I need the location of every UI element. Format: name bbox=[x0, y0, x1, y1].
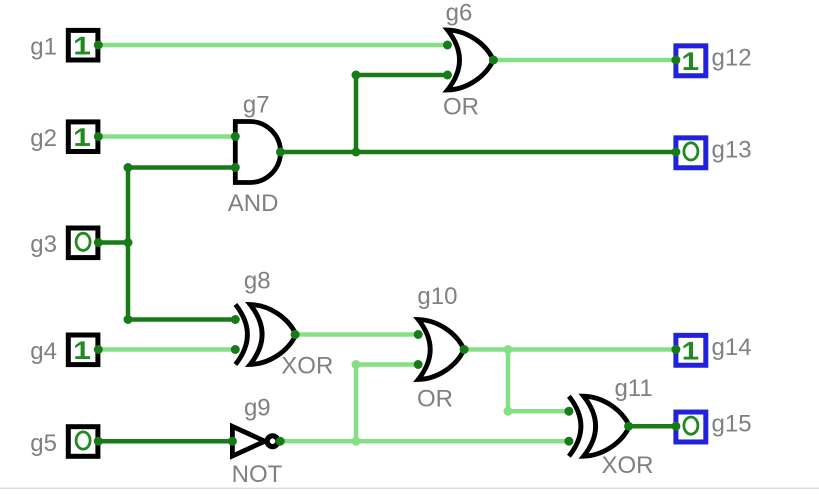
or-gate g6 bbox=[448, 30, 494, 90]
pin dots g7 bbox=[231, 132, 285, 172]
wire g1 out to g6 upper input (high) bbox=[98, 43, 447, 48]
svg-text:NOT: NOT bbox=[232, 461, 283, 488]
junction dot corner to g10 lower bbox=[352, 360, 361, 369]
wire g3 net to g7 lower input (low) bbox=[128, 165, 235, 170]
wire g7 out to g13 (low) bbox=[281, 150, 676, 155]
junction dot junction on g7 out bbox=[352, 148, 361, 157]
output box g14 bbox=[676, 335, 706, 365]
port dot g5 bbox=[94, 437, 103, 446]
port dot g13 bbox=[671, 148, 680, 157]
junction dot corner to g6 lower bbox=[352, 71, 361, 80]
port dot g3 bbox=[94, 238, 103, 247]
wire g4 out to g8 lower input (high) bbox=[98, 347, 235, 352]
svg-text:g7: g7 bbox=[243, 92, 270, 119]
and-gate g7 bbox=[235, 122, 280, 183]
wire branch to g10 lower input (high) bbox=[356, 362, 418, 367]
junction dot corner to g11 upper bbox=[504, 407, 513, 416]
svg-text:g8: g8 bbox=[244, 267, 271, 294]
value 1 in g12 bbox=[683, 52, 698, 70]
svg-text:g5: g5 bbox=[30, 430, 57, 457]
pin dots g9 bbox=[228, 437, 285, 446]
junction dot corner to g8 upper bbox=[124, 315, 133, 324]
wire g11 out to g15 (low) bbox=[629, 424, 676, 429]
port dot g2 bbox=[94, 132, 103, 141]
wire g9 out to g11 lower input (high) bbox=[280, 439, 569, 444]
wire g8 out to g10 upper input (high) bbox=[295, 332, 418, 337]
not-gate g9 bbox=[232, 426, 278, 456]
wire g3 net to g8 upper input (low) bbox=[128, 317, 235, 322]
svg-text:g11: g11 bbox=[614, 375, 652, 402]
port dot g15 bbox=[671, 422, 680, 431]
pin dots g11 bbox=[564, 407, 633, 446]
pin dots g8 bbox=[231, 315, 300, 354]
xor-gate g8 bbox=[235, 305, 296, 365]
svg-text:OR: OR bbox=[443, 93, 479, 120]
svg-text:g14: g14 bbox=[712, 334, 752, 361]
input box g4 bbox=[68, 335, 98, 365]
wire g6 out to g12 (high) bbox=[493, 58, 676, 63]
wire g2 out to g7 upper input (high) bbox=[98, 134, 235, 139]
svg-text:g6: g6 bbox=[446, 0, 473, 26]
svg-text:g9: g9 bbox=[244, 395, 271, 422]
wire g9 out branch vertical (high) bbox=[354, 365, 359, 442]
wire g10 out to g14 (high) bbox=[464, 347, 676, 352]
pin dots g10 bbox=[414, 330, 469, 369]
wire g5 out to g9 input (low) bbox=[98, 439, 232, 444]
svg-text:g10: g10 bbox=[417, 283, 457, 310]
port dot g1 bbox=[94, 41, 103, 50]
value 1 in g4 bbox=[75, 341, 90, 359]
value 1 in g1 bbox=[75, 37, 90, 55]
value 1 in g14 bbox=[683, 342, 698, 360]
svg-text:g3: g3 bbox=[30, 231, 57, 258]
svg-text:AND: AND bbox=[228, 190, 279, 217]
wire g10 out branch vertical (high) bbox=[506, 350, 511, 412]
input box g5 bbox=[68, 427, 98, 457]
svg-text:OR: OR bbox=[417, 385, 453, 412]
input box g1 bbox=[68, 30, 98, 60]
pin dots g6 bbox=[443, 41, 498, 80]
output box g13 bbox=[676, 138, 706, 168]
port dot g4 bbox=[94, 345, 103, 354]
svg-text:XOR: XOR bbox=[601, 452, 653, 479]
wire branch to g11 upper input (high) bbox=[508, 409, 569, 414]
wire branch to g6 lower input (low) bbox=[356, 73, 448, 78]
xor-gate g11 bbox=[569, 396, 630, 456]
svg-text:g4: g4 bbox=[30, 338, 57, 365]
svg-text:g12: g12 bbox=[712, 44, 752, 71]
svg-text:g15: g15 bbox=[712, 411, 752, 438]
svg-text:g1: g1 bbox=[30, 34, 57, 61]
svg-text:g2: g2 bbox=[30, 125, 57, 152]
junction dot junction at g3 bbox=[124, 238, 133, 247]
input box g3 bbox=[68, 228, 98, 258]
value 1 in g2 bbox=[75, 128, 90, 146]
svg-text:XOR: XOR bbox=[281, 352, 333, 379]
wire g3 out stub (low) bbox=[98, 240, 128, 245]
junction dot corner to g7 lower bbox=[124, 163, 133, 172]
port dot g12 bbox=[671, 56, 680, 65]
or-gate g10 bbox=[418, 320, 464, 380]
wire g7 out branch vertical (low) bbox=[354, 75, 359, 152]
junction dot junction on g9 out bbox=[352, 437, 361, 446]
value O in g13 bbox=[684, 143, 698, 160]
output box g15 bbox=[676, 412, 706, 442]
bottom separator line bbox=[0, 488, 819, 489]
port dot g14 bbox=[671, 345, 680, 354]
junction dot junction on g10 out bbox=[504, 345, 513, 354]
value O in g5 bbox=[76, 432, 90, 449]
wire g3 net vertical (low) bbox=[126, 168, 131, 320]
svg-text:g13: g13 bbox=[712, 136, 752, 163]
value O in g3 bbox=[76, 233, 90, 250]
output box g12 bbox=[676, 46, 706, 76]
input box g2 bbox=[68, 122, 98, 152]
value O in g15 bbox=[684, 417, 698, 434]
